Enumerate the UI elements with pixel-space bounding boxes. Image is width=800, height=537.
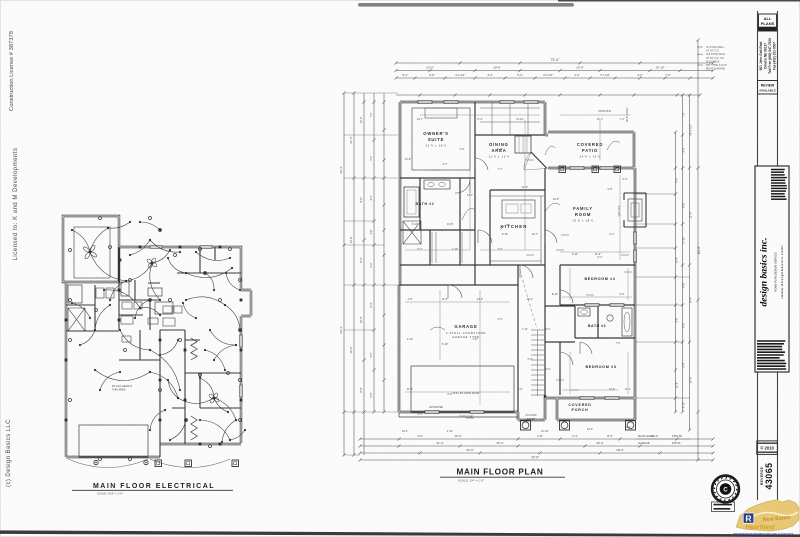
svg-text:COVERED: COVERED (568, 403, 591, 407)
right plan: right side connector dims (636, 194, 690, 398)
svg-text:2x6 STUD WALL: 2x6 STUD WALL (706, 52, 726, 56)
svg-text:• w w w . d e s i g n b a s i: • w w w . d e s i g n b a s i c s . c o … (780, 245, 784, 298)
left plan: screened porch room top-left (63, 216, 119, 282)
svg-text:2'-11": 2'-11" (447, 430, 453, 433)
svg-text:10'-10": 10'-10" (541, 430, 549, 433)
svg-text:5'-10": 5'-10" (442, 343, 448, 346)
svg-text:6'-4": 6'-4" (359, 257, 363, 262)
svg-text:5'-10": 5'-10" (682, 237, 686, 244)
svg-text:15'8 x 18'0: 15'8 x 18'0 (572, 219, 593, 223)
svg-text:5'-0": 5'-0" (370, 155, 373, 160)
svg-text:2'-4": 2'-4" (572, 434, 578, 438)
svg-text:REVIEW: REVIEW (761, 84, 775, 88)
svg-text:4'-0": 4'-0" (574, 73, 579, 77)
right plan: bath1 shower (404, 187, 419, 217)
title strip rails (758, 11, 778, 500)
svg-text:72'-0": 72'-0" (531, 456, 539, 460)
svg-text:Licensed to: K and M Developm: Licensed to: K and M Developments (13, 148, 19, 261)
svg-text:16'-0": 16'-0" (454, 434, 461, 438)
right plan: hall stair rungs (531, 330, 544, 395)
svg-text:5'-11": 5'-11" (572, 253, 578, 256)
svg-text:20'-4": 20'-4" (496, 441, 503, 445)
svg-text:7'-10": 7'-10" (452, 248, 458, 251)
svg-text:8'-0": 8'-0" (359, 387, 363, 392)
svg-text:10'-0": 10'-0" (359, 317, 363, 324)
right plan: fireplace family room (624, 193, 646, 227)
svg-text:9'-8": 9'-8" (676, 317, 679, 322)
svg-text:12'-0": 12'-0" (689, 376, 693, 383)
svg-text:32'-0": 32'-0" (466, 448, 474, 452)
svg-text:2'-8": 2'-8" (537, 434, 543, 438)
svg-text:6'-10": 6'-10" (412, 223, 418, 226)
svg-text:Fax (402) 331-5507: Fax (402) 331-5507 (772, 42, 776, 70)
svg-text:ENT CTR: ENT CTR (618, 205, 621, 216)
svg-text:© 2010: © 2010 (760, 446, 774, 451)
svg-text:5'-1": 5'-1" (418, 248, 423, 251)
right plan: left connector dims (344, 93, 398, 455)
svg-text:PATIO: PATIO (582, 148, 598, 153)
svg-text:7'-5": 7'-5" (616, 342, 621, 345)
svg-text:12'-8": 12'-8" (405, 158, 411, 161)
svg-text:60'-8": 60'-8" (697, 246, 701, 254)
right plan: dimension columns left (342, 91, 345, 456)
svg-text:4'-0": 4'-0" (370, 352, 373, 357)
svg-text:LIFTMASTER: LIFTMASTER (429, 406, 444, 409)
right plan: dimension columns right (696, 38, 699, 461)
right plan: corner entry diagonal wall (531, 152, 547, 169)
right plan: bath1 vanity (424, 180, 450, 189)
right plan: patio posts (559, 166, 566, 173)
svg-text:5'-2": 5'-2" (517, 73, 522, 77)
svg-text:KITCHEN: KITCHEN (500, 224, 527, 229)
right plan: garage slab (411, 366, 514, 412)
svg-text:5'-8": 5'-8" (370, 392, 373, 397)
svg-text:14'-8": 14'-8" (349, 236, 353, 243)
svg-text:20'-4": 20'-4" (596, 441, 603, 445)
svg-text:901 John Galt Blvd: 901 John Galt Blvd (759, 42, 763, 71)
svg-text:9'-4": 9'-4" (689, 297, 693, 303)
right plan: small arrows/leader curves (545, 203, 560, 212)
svg-text:4'-2": 4'-2" (487, 73, 492, 77)
svg-text:4'-8": 4'-8" (682, 282, 686, 287)
watermark realtor R box (743, 513, 754, 523)
svg-text:ROOM: ROOM (575, 212, 591, 217)
svg-text:14'-8": 14'-8" (447, 223, 453, 226)
svg-text:3'-8": 3'-8" (370, 229, 373, 234)
review available box (758, 81, 778, 95)
svg-text:INFORMATION DEEMED RELIABLE BU: INFORMATION DEEMED RELIABLE BUT NOT (733, 532, 794, 536)
svg-text:11'0 x 12'4: 11'0 x 12'4 (489, 155, 510, 159)
svg-text:24'-4": 24'-4" (339, 326, 343, 334)
svg-text:BEDROOM #2: BEDROOM #2 (584, 277, 615, 281)
svg-text:4'-10": 4'-10" (682, 402, 686, 409)
svg-text:FAMILY: FAMILY (573, 206, 593, 211)
svg-text:GARAGE: GARAGE (454, 324, 477, 329)
svg-text:14'4 x 10'0: 14'4 x 10'0 (579, 155, 600, 159)
svg-text:design basics inc.: design basics inc. (759, 237, 770, 306)
svg-text:2x STUD WALL: 2x STUD WALL (706, 45, 725, 49)
svg-text:7'-8": 7'-8" (473, 338, 478, 341)
svg-text:43'-4": 43'-4" (339, 166, 343, 174)
right plan: owner suite bed furniture (412, 108, 470, 170)
svg-text:16'-0": 16'-0" (349, 346, 353, 353)
svg-text:7'-2": 7'-2" (370, 112, 373, 117)
svg-text:4'-6": 4'-6" (460, 148, 465, 151)
svg-text:3'-0": 3'-0" (498, 248, 503, 251)
svg-text:72'-0": 72'-0" (551, 58, 560, 62)
svg-text:19'-0": 19'-0" (493, 66, 501, 70)
svg-text:10'-4": 10'-4" (402, 430, 408, 433)
copyright 2010 box (757, 441, 778, 455)
svg-text:4'-0": 4'-0" (676, 177, 679, 182)
svg-text:16'8 x 8'0 OVHD DOOR: 16'8 x 8'0 OVHD DOOR (453, 392, 480, 395)
svg-text:11'-0": 11'-0" (595, 253, 601, 256)
svg-text:14'-0": 14'-0" (609, 388, 615, 391)
svg-text:4'-4": 4'-4" (370, 195, 373, 200)
svg-text:PORCH: PORCH (572, 408, 589, 412)
svg-text:9'-10": 9'-10" (502, 233, 508, 236)
svg-text:SCALE: 3/16" = 1'-0": SCALE: 3/16" = 1'-0" (97, 492, 123, 496)
svg-text:4'-8": 4'-8" (408, 298, 413, 301)
svg-text:7'-4": 7'-4" (620, 118, 625, 121)
copyright seal (712, 476, 739, 503)
right plan: garage apron band (399, 412, 518, 417)
left plan: outlet symbols (69, 249, 72, 252)
left plan: interior walls (66, 247, 241, 457)
svg-text:AVAILABLE: AVAILABLE (759, 89, 776, 93)
right plan: interior dim lines (420, 114, 540, 116)
left plan: wall heater zigzags (191, 338, 197, 360)
svg-text:MAIN FLOOR ELECTRICAL: MAIN FLOOR ELECTRICAL (93, 483, 215, 490)
svg-text:PLANS: PLANS (761, 21, 775, 26)
left plan: porch posts bottom (155, 460, 162, 467)
svg-text:SCALE: 1/4" = 1'-0": SCALE: 1/4" = 1'-0" (458, 479, 484, 483)
svg-text:21'-4": 21'-4" (436, 441, 443, 445)
svg-text:10'-1": 10'-1" (527, 298, 533, 301)
svg-text:(c) Design Basics LLC: (c) Design Basics LLC (6, 419, 12, 487)
svg-text:13'-8": 13'-8" (576, 66, 584, 70)
right plan: interior walls (399, 102, 635, 412)
svg-text:AT 16" O.C.: AT 16" O.C. (706, 49, 720, 53)
svg-text:BEDROOM #3: BEDROOM #3 (585, 365, 616, 369)
svg-text:7'-0": 7'-0" (665, 73, 670, 77)
svg-text:6'-8": 6'-8" (429, 73, 434, 77)
svg-text:5'-4": 5'-4" (682, 362, 686, 367)
right plan: vertical windows right wall (634, 232, 637, 244)
svg-text:12'-9": 12'-9" (553, 198, 559, 201)
right plan: window marks on walls (418, 101, 432, 104)
svg-text:OWNER'S: OWNER'S (423, 131, 448, 136)
svg-text:7'-0": 7'-0" (682, 112, 686, 117)
svg-text:4'0 CONC: 4'0 CONC (525, 414, 537, 417)
right plan: kitchen counters (490, 196, 545, 265)
svg-text:11'-8": 11'-8" (676, 382, 679, 388)
svg-text:13'-7": 13'-7" (417, 118, 423, 121)
scan artifact top hairline (558, 0, 800, 2)
svg-text:Construction License # 387378: Construction License # 387378 (9, 31, 15, 111)
right plan: bath fixtures (578, 308, 590, 316)
svg-text:C: C (723, 487, 728, 493)
svg-text:BD AT GARAGE: BD AT GARAGE (706, 67, 725, 71)
design basics logo box (755, 166, 789, 372)
svg-text:18'-0": 18'-0" (616, 448, 624, 452)
svg-text:4'-1 1/2": 4'-1 1/2" (455, 73, 465, 77)
left plan: misc small fixtures (68, 285, 82, 303)
svg-text:625 SF: 625 SF (672, 441, 681, 445)
right plan: porch posts (521, 420, 531, 430)
svg-text:11'-4": 11'-4" (689, 212, 693, 219)
watermark state map gold (736, 500, 799, 531)
right plan: outer walls (399, 102, 635, 420)
svg-text:2'-5": 2'-5" (498, 318, 503, 321)
left plan: exterior lights below garage (94, 460, 98, 464)
svg-text:43065: 43065 (764, 463, 774, 490)
all plans copyrighted box (759, 14, 777, 31)
right plan: door swing arcs (455, 178, 470, 193)
svg-text:MAIN LEVEL: MAIN LEVEL (638, 434, 654, 438)
svg-text:8'-0": 8'-0" (607, 434, 613, 438)
svg-text:13'-0": 13'-0" (426, 66, 434, 70)
left plan: midband fixtures (122, 302, 132, 309)
svg-text:12'4 x 16'0: 12'4 x 16'0 (425, 144, 446, 148)
left plan: garage door swing arcs (68, 459, 230, 468)
svg-text:8'-10": 8'-10" (552, 293, 558, 296)
svg-text:5'-2": 5'-2" (370, 262, 373, 267)
scan artifact bottom line (0, 530, 800, 537)
right plan: dimension rows bottom (358, 437, 714, 440)
scan artifact top bar (358, 3, 574, 7)
svg-text:6'-1": 6'-1" (546, 328, 551, 331)
right plan: nook closet shelving above dining (480, 102, 540, 135)
svg-text:4'-2": 4'-2" (637, 73, 642, 77)
svg-text:Heartland: Heartland (745, 524, 776, 531)
logo box top text block (771, 169, 785, 171)
svg-text:5/8" TYPE X GYP: 5/8" TYPE X GYP (706, 63, 727, 67)
svg-text:GARAGE: GARAGE (638, 441, 650, 445)
svg-text:6'-4": 6'-4" (370, 302, 373, 307)
svg-text:12'-7": 12'-7" (532, 233, 538, 236)
svg-text:11'-8": 11'-8" (407, 388, 413, 391)
svg-text:9'-9": 9'-9" (620, 293, 625, 296)
svg-text:5'-1": 5'-1" (598, 256, 603, 259)
right plan: pantry box (515, 136, 531, 153)
svg-text:1552 SF: 1552 SF (672, 434, 683, 438)
svg-text:4'-4": 4'-4" (682, 147, 686, 152)
svg-text:11'-10": 11'-10" (516, 118, 524, 121)
seal caption box (712, 502, 735, 512)
svg-text:13'-3": 13'-3" (587, 428, 593, 431)
right plan: linen hatch box (403, 221, 421, 244)
svg-text:9'-1": 9'-1" (610, 233, 615, 236)
svg-text:BATH #1: BATH #1 (416, 202, 435, 206)
svg-text:R: R (745, 514, 752, 524)
svg-text:4'-7": 4'-7" (443, 163, 448, 166)
svg-text:Omaha NE 68137: Omaha NE 68137 (763, 43, 767, 69)
svg-text:SUITE: SUITE (428, 137, 444, 142)
svg-text:5'-0": 5'-0" (623, 178, 628, 181)
svg-text:6'-9": 6'-9" (418, 413, 423, 416)
logo box bottom text block (757, 340, 785, 342)
left plan: stair hatch box (68, 308, 85, 331)
svg-text:AT 16" O.C. W/: AT 16" O.C. W/ (706, 56, 724, 60)
svg-text:7'-7": 7'-7" (498, 168, 503, 171)
left plan: garage slab recess (79, 425, 148, 457)
svg-text:2'-10": 2'-10" (407, 338, 413, 341)
svg-text:MAIN FLOOR PLAN: MAIN FLOOR PLAN (457, 468, 544, 477)
svg-text:3'-0": 3'-0" (417, 434, 423, 438)
left plan: switch marks (119, 259, 122, 262)
svg-text:8'-6": 8'-6" (448, 393, 453, 396)
svg-text:THIS AREA: THIS AREA (112, 388, 126, 392)
svg-text:2'-6": 2'-6" (546, 368, 551, 371)
svg-text:7'-11": 7'-11" (522, 328, 528, 331)
left plan: window marks (150, 246, 162, 249)
svg-text:11'-8": 11'-8" (442, 298, 448, 301)
svg-text:13'-10": 13'-10" (655, 66, 664, 70)
svg-text:4'-3 1/2": 4'-3 1/2" (543, 73, 553, 77)
svg-text:9'-0": 9'-0" (359, 197, 363, 202)
svg-text:PATIO B.B.: PATIO B.B. (598, 109, 611, 113)
svg-text:8'-4": 8'-4" (478, 118, 483, 121)
svg-text:8'0 CLG HEIGHT: 8'0 CLG HEIGHT (112, 384, 132, 388)
svg-text:BATH #2: BATH #2 (588, 324, 606, 328)
svg-text:12'-8" x 7'-4": 12'-8" x 7'-4" (459, 415, 473, 418)
svg-text:COVERED: COVERED (577, 142, 603, 147)
svg-text:5'-9": 5'-9" (518, 388, 523, 391)
right plan: dimension rows top (394, 61, 714, 64)
svg-text:6'-4": 6'-4" (402, 73, 407, 77)
svg-text:DINING: DINING (489, 142, 508, 147)
svg-text:14'-2 1/2": 14'-2 1/2" (689, 124, 693, 136)
svg-text:6'-0": 6'-0" (682, 322, 686, 327)
left plan: ceiling fans (82, 244, 97, 259)
svg-text:10'-4": 10'-4" (625, 426, 631, 429)
svg-text:HOME PLAN DESIGN SERVICE: HOME PLAN DESIGN SERVICE (774, 252, 778, 292)
svg-text:3'-11": 3'-11" (497, 148, 503, 151)
svg-text:Toll Free (800) 947-7526: Toll Free (800) 947-7526 (768, 38, 772, 74)
right plan: kitchen island (502, 200, 535, 218)
svg-text:2'-3": 2'-3" (528, 358, 533, 361)
left plan: main outline (119, 247, 251, 443)
right plan: wic closet lines (432, 232, 462, 263)
svg-text:13'-4": 13'-4" (676, 257, 679, 263)
svg-text:R-19 INSUL: R-19 INSUL (706, 59, 721, 63)
svg-text:6'-6": 6'-6" (682, 202, 686, 207)
svg-text:7'-1 1/2": 7'-1 1/2" (600, 73, 610, 77)
left plan: wiring arcs (90, 252, 126, 281)
svg-text:21'-4": 21'-4" (349, 136, 353, 143)
svg-text:9'-5": 9'-5" (608, 188, 613, 191)
svg-text:12'-4": 12'-4" (359, 117, 363, 124)
